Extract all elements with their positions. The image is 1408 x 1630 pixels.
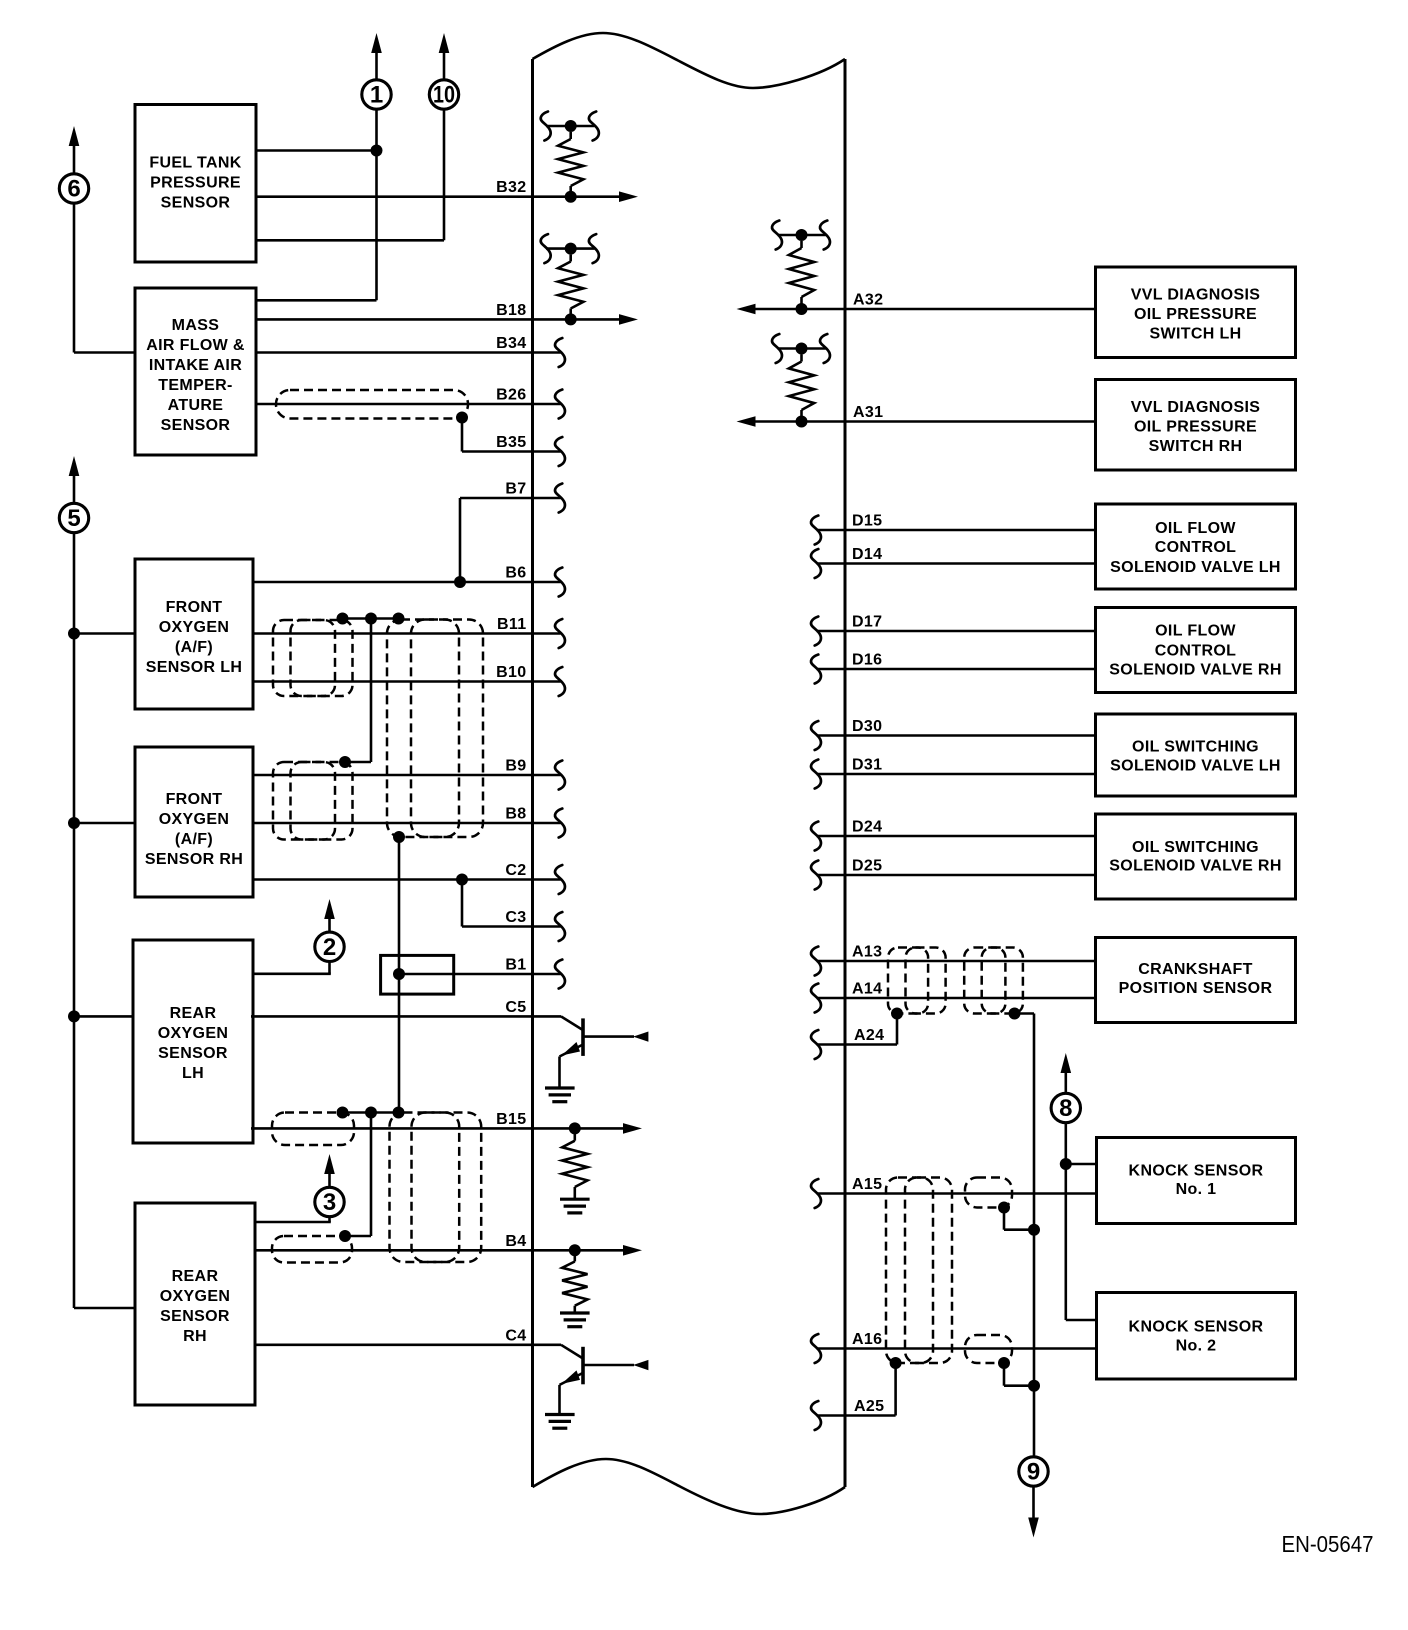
box: rear oxygen sensor LH xyxy=(133,940,253,1143)
box: VVL diagnosis oil pressure switch LH xyxy=(1096,267,1296,358)
label D17 xyxy=(852,614,882,631)
svg-text:SENSOR RH: SENSOR RH xyxy=(145,851,243,868)
break mark pin A25 xyxy=(811,1401,821,1430)
svg-text:A13: A13 xyxy=(852,944,882,961)
junction front shield mid xyxy=(365,613,377,625)
wire pin B7 xyxy=(460,497,561,500)
svg-text:B32: B32 xyxy=(496,179,526,196)
label D14 xyxy=(852,546,882,563)
resistor pull-up A31 xyxy=(778,343,826,422)
svg-text:D16: D16 xyxy=(852,652,882,669)
break mark pin D30 xyxy=(811,721,821,750)
junction knock2 shield xyxy=(998,1357,1010,1369)
junction knock2 drain on bus xyxy=(1028,1380,1040,1392)
svg-text:CONTROL: CONTROL xyxy=(1155,539,1237,556)
ECM connector band left edge xyxy=(531,59,534,1487)
wire knock1 shield drain xyxy=(1004,1208,1034,1230)
break mark pin C3 xyxy=(555,912,565,941)
wire pin B34 xyxy=(255,351,561,354)
label C4 xyxy=(505,1327,526,1344)
node 8 circled xyxy=(1051,1093,1080,1122)
break mark pin A14 xyxy=(811,984,821,1013)
svg-text:C2: C2 xyxy=(505,862,526,879)
label B4 xyxy=(505,1233,526,1250)
label A14 xyxy=(852,981,882,998)
junction B6/B7 xyxy=(454,576,466,588)
wire pin B6 xyxy=(253,581,561,584)
svg-text:A14: A14 xyxy=(852,981,882,998)
wire pin B8 xyxy=(253,822,561,825)
label B6 xyxy=(505,565,526,582)
box: mass air flow & intake air temperature sensor xyxy=(135,288,256,455)
svg-text:6: 6 xyxy=(67,176,80,203)
box: knock sensor No. 1 xyxy=(1097,1138,1296,1224)
wire front shield mid drain to RH shield xyxy=(345,619,371,763)
wire net5 vertical bus xyxy=(73,533,76,1308)
resistor B15 to ground xyxy=(562,1134,587,1199)
label A15 xyxy=(852,1176,882,1193)
wire net5 to rear O2 RH xyxy=(74,1307,136,1310)
label A25 xyxy=(854,1398,884,1415)
break mark pin A15 xyxy=(811,1179,821,1208)
ECM band bottom wavy break edge xyxy=(533,1459,846,1514)
svg-text:OIL SWITCHING: OIL SWITCHING xyxy=(1132,839,1259,856)
svg-text:OXYGEN: OXYGEN xyxy=(159,619,230,636)
break mark pin B8 xyxy=(555,809,565,838)
label B35 xyxy=(496,434,526,451)
svg-text:D30: D30 xyxy=(852,718,882,735)
node 1 circled xyxy=(362,80,391,109)
svg-text:B7: B7 xyxy=(505,481,526,498)
wire pin B10 xyxy=(253,680,561,683)
shield knock pair xyxy=(886,1178,952,1364)
svg-text:1: 1 xyxy=(370,82,383,109)
svg-text:SOLENOID VALVE RH: SOLENOID VALVE RH xyxy=(1109,662,1281,679)
figure number EN-05647 xyxy=(1282,1531,1374,1557)
break mark pin A16 xyxy=(811,1334,821,1363)
label A13 xyxy=(852,944,882,961)
shield crankshaft pair 2 xyxy=(964,948,1023,1014)
box: front oxygen (A/F) sensor LH xyxy=(135,559,253,709)
svg-text:OIL PRESSURE: OIL PRESSURE xyxy=(1134,306,1257,323)
wire pin B35 xyxy=(462,450,561,453)
svg-text:9: 9 xyxy=(1027,1459,1040,1486)
resistor B4 to ground xyxy=(562,1256,587,1313)
shield rear O2 RH wire xyxy=(272,1236,352,1263)
wire pin D31 xyxy=(817,773,1096,776)
node 5 circled xyxy=(59,503,88,532)
shield front O2 LH pair xyxy=(273,620,353,696)
svg-text:FUEL TANK: FUEL TANK xyxy=(149,155,241,172)
wire rear shield rail xyxy=(343,1111,399,1114)
break mark pin D16 xyxy=(811,655,821,684)
box: oil flow control solenoid valve RH xyxy=(1096,608,1296,693)
break mark pin A13 xyxy=(811,947,821,976)
svg-text:SENSOR: SENSOR xyxy=(160,1308,230,1325)
junction B26 shield drain xyxy=(456,412,468,424)
junction front common shield xyxy=(393,613,405,625)
svg-text:C5: C5 xyxy=(505,999,526,1016)
wire pin A14 xyxy=(817,997,1096,1000)
transistor at C5 xyxy=(560,1016,649,1088)
box: crankshaft position sensor xyxy=(1096,938,1296,1023)
wire net6 vertical to MAF sensor xyxy=(74,204,136,353)
wire net10 vertical xyxy=(255,110,444,241)
label A24 xyxy=(854,1027,884,1044)
net 5 arrow xyxy=(69,456,80,504)
svg-text:8: 8 xyxy=(1059,1095,1072,1122)
label C5 xyxy=(505,999,526,1016)
wire pin B18 xyxy=(255,314,638,325)
resistor pull-up B32 xyxy=(546,120,594,197)
break mark pin B35 xyxy=(555,437,565,466)
wire pin A31 xyxy=(737,416,1096,427)
wire pin B4 xyxy=(255,1245,642,1256)
junction B15 resistor xyxy=(569,1122,581,1134)
svg-text:B35: B35 xyxy=(496,434,526,451)
break mark pin D25 xyxy=(811,861,821,890)
svg-text:OIL FLOW: OIL FLOW xyxy=(1155,520,1236,537)
svg-text:AIR FLOW &: AIR FLOW & xyxy=(146,337,245,354)
junction knock1 drain on bus xyxy=(1028,1224,1040,1236)
junction crank shield 1 drain xyxy=(891,1008,903,1020)
label B26 xyxy=(496,387,526,404)
svg-text:SWITCH LH: SWITCH LH xyxy=(1149,326,1241,343)
svg-text:A15: A15 xyxy=(852,1176,882,1193)
svg-text:C3: C3 xyxy=(505,909,526,926)
wire pin D25 xyxy=(817,874,1096,877)
ECM band top wavy break edge xyxy=(533,33,846,88)
box: oil switching solenoid valve LH xyxy=(1096,714,1296,796)
junction front RH shield xyxy=(339,756,351,768)
shield rear O2 LH wire xyxy=(272,1113,354,1146)
break mark B32 rail right xyxy=(589,112,599,141)
break mark pin B9 xyxy=(555,761,565,790)
break mark pin D31 xyxy=(811,760,821,789)
svg-text:VVL DIAGNOSIS: VVL DIAGNOSIS xyxy=(1131,287,1261,304)
net 2 arrow xyxy=(324,899,335,932)
wire pin B9 xyxy=(253,774,561,777)
svg-text:B34: B34 xyxy=(496,335,526,352)
shield knock1 end xyxy=(965,1178,1012,1208)
junction B32 resistor xyxy=(565,191,577,203)
break mark B32 rail left xyxy=(541,112,551,141)
wire front common shield drain to B1 xyxy=(398,837,401,1113)
svg-text:OXYGEN: OXYGEN xyxy=(159,811,230,828)
wire knock2 shield drain xyxy=(1004,1363,1034,1386)
svg-text:OIL FLOW: OIL FLOW xyxy=(1155,623,1236,640)
wire pin B15 xyxy=(251,1123,642,1134)
break mark pin B10 xyxy=(555,667,565,696)
junction net5 to rear O2 LH xyxy=(68,1010,134,1022)
box: fuel tank pressure sensor xyxy=(135,105,256,263)
node 3 circled xyxy=(315,1187,344,1216)
svg-text:KNOCK SENSOR: KNOCK SENSOR xyxy=(1129,1163,1264,1180)
svg-text:SENSOR: SENSOR xyxy=(158,1045,228,1062)
shield front O2 RH pair xyxy=(273,762,353,840)
net 3 arrow xyxy=(324,1154,335,1187)
resistor pull-up B18 xyxy=(546,243,594,320)
svg-text:(A/F): (A/F) xyxy=(175,831,213,848)
svg-text:OIL PRESSURE: OIL PRESSURE xyxy=(1134,419,1257,436)
svg-text:A31: A31 xyxy=(853,404,883,421)
break mark pin B26 xyxy=(555,390,565,419)
wire C2 drain to C3 xyxy=(461,880,464,927)
wire net1 vertical xyxy=(255,110,377,301)
svg-text:A32: A32 xyxy=(853,292,883,309)
break mark pin A24 xyxy=(811,1030,821,1059)
shield knock2 end xyxy=(965,1335,1012,1363)
wire fuel tank sensor pin1 xyxy=(255,149,377,152)
svg-text:C4: C4 xyxy=(505,1327,526,1344)
ground of B15 resistor xyxy=(560,1199,590,1213)
svg-text:SOLENOID VALVE RH: SOLENOID VALVE RH xyxy=(1109,858,1281,875)
net 9 arrow xyxy=(1028,1487,1039,1538)
break mark A31 rail right xyxy=(820,334,830,363)
wire pin C4 xyxy=(255,1344,561,1347)
junction knock1 upper wire xyxy=(1060,1158,1072,1170)
svg-text:B11: B11 xyxy=(497,616,527,633)
label D31 xyxy=(852,757,882,774)
wire pin D24 xyxy=(817,835,1096,838)
svg-text:D15: D15 xyxy=(852,513,882,530)
svg-text:B10: B10 xyxy=(496,664,526,681)
svg-text:(A/F): (A/F) xyxy=(175,639,213,656)
label D16 xyxy=(852,652,882,669)
break mark pin B6 xyxy=(555,568,565,597)
wire pin D17 xyxy=(817,630,1096,633)
wire net8 bus xyxy=(1065,1123,1068,1320)
wire crank shield 2 drain xyxy=(1015,1014,1035,1458)
svg-text:OXYGEN: OXYGEN xyxy=(160,1288,231,1305)
wire B7 to B6 junction xyxy=(459,498,462,582)
wire pin A32 xyxy=(737,304,1096,315)
junction B4 resistor xyxy=(569,1244,581,1256)
junction knock tall shield xyxy=(890,1357,902,1369)
svg-text:No. 2: No. 2 xyxy=(1176,1338,1217,1355)
net 1 arrow xyxy=(371,33,382,80)
svg-text:OIL SWITCHING: OIL SWITCHING xyxy=(1132,739,1259,756)
wire pin B32 xyxy=(255,191,638,202)
svg-text:FRONT: FRONT xyxy=(166,791,223,808)
svg-text:D31: D31 xyxy=(852,757,882,774)
label C3 xyxy=(505,909,526,926)
wire pin C3 xyxy=(462,925,561,928)
svg-text:PRESSURE: PRESSURE xyxy=(150,175,241,192)
break mark B18 rail right xyxy=(589,234,599,263)
svg-text:LH: LH xyxy=(182,1065,204,1082)
svg-text:EN-05647: EN-05647 xyxy=(1282,1531,1374,1557)
svg-text:D14: D14 xyxy=(852,546,882,563)
net 10 arrow xyxy=(439,33,450,80)
wire pin B1 xyxy=(399,973,561,976)
box: knock sensor No. 2 xyxy=(1097,1293,1296,1380)
svg-text:B9: B9 xyxy=(505,758,526,775)
svg-text:FRONT: FRONT xyxy=(166,599,223,616)
junction C2 to C3 xyxy=(456,874,468,886)
break mark pin D15 xyxy=(811,516,821,545)
junction rear RH shield xyxy=(339,1230,351,1242)
junction rear shield mid xyxy=(365,1107,377,1119)
break mark pin B11 xyxy=(555,619,565,648)
label B11 xyxy=(497,616,527,633)
node 2 circled xyxy=(315,932,344,961)
svg-text:CRANKSHAFT: CRANKSHAFT xyxy=(1138,961,1253,978)
svg-text:B1: B1 xyxy=(505,957,526,974)
wire net3 to rear O2 RH xyxy=(255,1217,331,1222)
wire pin A15 xyxy=(817,1192,1096,1195)
label B1 xyxy=(505,957,526,974)
junction net1 / fuel tank sensor wire xyxy=(371,145,383,157)
wire pin D30 xyxy=(817,734,1096,737)
wire pin B26 xyxy=(255,403,561,406)
break mark pin C2 xyxy=(555,865,565,894)
label B10 xyxy=(496,664,526,681)
break mark pin B7 xyxy=(555,484,565,513)
break mark A32 rail left xyxy=(772,221,782,250)
wire pin D14 xyxy=(817,562,1096,565)
shield front O2 common xyxy=(387,620,483,838)
label D15 xyxy=(852,513,882,530)
svg-text:REAR: REAR xyxy=(170,1005,217,1022)
svg-text:MASS: MASS xyxy=(172,317,220,334)
svg-text:2: 2 xyxy=(323,934,336,961)
svg-text:B8: B8 xyxy=(505,806,526,823)
label D30 xyxy=(852,718,882,735)
svg-text:D25: D25 xyxy=(852,858,882,875)
label D24 xyxy=(852,819,882,836)
svg-text:POSITION SENSOR: POSITION SENSOR xyxy=(1119,980,1273,997)
wire pin C5 xyxy=(251,1015,561,1018)
break mark A31 rail left xyxy=(772,334,782,363)
shield rear O2 common xyxy=(390,1113,482,1263)
box: VVL diagnosis oil pressure switch RH xyxy=(1096,380,1296,471)
ground of C4 transistor xyxy=(545,1415,575,1429)
wire to knock sensor 1 xyxy=(1066,1163,1097,1166)
junction front LH shield xyxy=(337,613,349,625)
junction rear LH shield xyxy=(337,1107,349,1119)
node 10 circled xyxy=(429,80,458,109)
svg-text:No. 1: No. 1 xyxy=(1176,1181,1217,1198)
break mark pin D24 xyxy=(811,822,821,851)
label B8 xyxy=(505,806,526,823)
ground of B4 resistor xyxy=(560,1313,590,1327)
junction front common shield bottom xyxy=(393,831,405,843)
svg-text:B4: B4 xyxy=(505,1233,526,1250)
junction knock1 shield xyxy=(998,1202,1010,1214)
ECM connector band right edge xyxy=(844,59,847,1487)
box: front oxygen (A/F) sensor RH xyxy=(135,747,253,897)
wire pin A16 xyxy=(817,1347,1096,1350)
junction A31 resistor xyxy=(796,416,808,428)
wire pin D15 xyxy=(817,529,1096,532)
shield crankshaft pair 1 xyxy=(888,948,946,1014)
svg-text:SOLENOID VALVE LH: SOLENOID VALVE LH xyxy=(1110,559,1281,576)
break mark pin B34 xyxy=(555,338,565,367)
junction net5 to front O2 RH xyxy=(68,817,136,829)
label B9 xyxy=(505,758,526,775)
svg-text:OXYGEN: OXYGEN xyxy=(158,1025,229,1042)
label A31 xyxy=(853,404,883,421)
break mark pin D14 xyxy=(811,549,821,578)
label B32 xyxy=(496,179,526,196)
net 6 arrow xyxy=(69,126,80,174)
junction rear common shield xyxy=(393,1107,405,1119)
wire net2 to rear O2 LH xyxy=(253,962,331,974)
junction B18 resistor xyxy=(565,313,577,325)
svg-text:VVL DIAGNOSIS: VVL DIAGNOSIS xyxy=(1131,399,1261,416)
label B34 xyxy=(496,335,526,352)
svg-text:SENSOR: SENSOR xyxy=(161,417,231,434)
svg-text:A24: A24 xyxy=(854,1027,884,1044)
wire pin D16 xyxy=(817,668,1096,671)
svg-text:10: 10 xyxy=(433,82,455,109)
wire pin C2 xyxy=(253,878,561,881)
label B18 xyxy=(496,302,526,319)
break mark B18 rail left xyxy=(541,234,551,263)
junction A32 resistor xyxy=(796,303,808,315)
wire pin A25 xyxy=(817,1363,896,1416)
svg-text:A25: A25 xyxy=(854,1398,884,1415)
label B15 xyxy=(496,1111,526,1128)
svg-text:3: 3 xyxy=(323,1189,336,1216)
svg-text:INTAKE AIR: INTAKE AIR xyxy=(149,357,242,374)
svg-text:D24: D24 xyxy=(852,819,882,836)
node 6 circled xyxy=(59,174,88,203)
net 8 arrow xyxy=(1061,1053,1072,1093)
svg-text:5: 5 xyxy=(67,505,80,532)
break mark pin D17 xyxy=(811,617,821,646)
transistor at C4 xyxy=(560,1345,649,1415)
box: rear oxygen sensor RH xyxy=(135,1203,255,1405)
svg-text:B18: B18 xyxy=(496,302,526,319)
svg-text:SWITCH RH: SWITCH RH xyxy=(1149,438,1243,455)
svg-text:B26: B26 xyxy=(496,387,526,404)
wire rear shield mid drain to RH shield xyxy=(345,1113,371,1237)
svg-text:SENSOR: SENSOR xyxy=(161,195,231,212)
wire pin A13 xyxy=(817,960,1096,963)
svg-text:TEMPER-: TEMPER- xyxy=(158,377,232,394)
connector box around B1 shield joint xyxy=(381,955,454,994)
resistor pull-up A32 xyxy=(778,229,826,309)
svg-text:SENSOR LH: SENSOR LH xyxy=(146,659,243,676)
node 9 circled xyxy=(1019,1457,1048,1486)
wire front shield rail xyxy=(343,617,399,620)
label D25 xyxy=(852,858,882,875)
svg-text:CONTROL: CONTROL xyxy=(1155,643,1237,660)
label C2 xyxy=(505,862,526,879)
svg-text:A16: A16 xyxy=(852,1331,882,1348)
junction shield drain at B1 xyxy=(393,968,405,980)
break mark A32 rail right xyxy=(820,221,830,250)
svg-text:RH: RH xyxy=(183,1328,207,1345)
svg-text:KNOCK SENSOR: KNOCK SENSOR xyxy=(1129,1319,1264,1336)
svg-text:REAR: REAR xyxy=(172,1268,219,1285)
wire pin B11 xyxy=(253,632,561,635)
box: oil flow control solenoid valve LH xyxy=(1096,504,1296,589)
label A32 xyxy=(853,292,883,309)
ground of C5 transistor xyxy=(545,1088,575,1102)
wire to knock sensor 2 xyxy=(1066,1319,1097,1322)
shield of B26 wire xyxy=(276,390,468,419)
svg-text:D17: D17 xyxy=(852,614,882,631)
svg-text:ATURE: ATURE xyxy=(168,397,224,414)
svg-text:B6: B6 xyxy=(505,565,526,582)
junction net5 to front O2 LH xyxy=(68,628,136,640)
junction crank shield 2 drain xyxy=(1009,1008,1021,1020)
wire pin A24 xyxy=(817,1014,898,1045)
svg-text:SOLENOID VALVE LH: SOLENOID VALVE LH xyxy=(1110,758,1281,775)
